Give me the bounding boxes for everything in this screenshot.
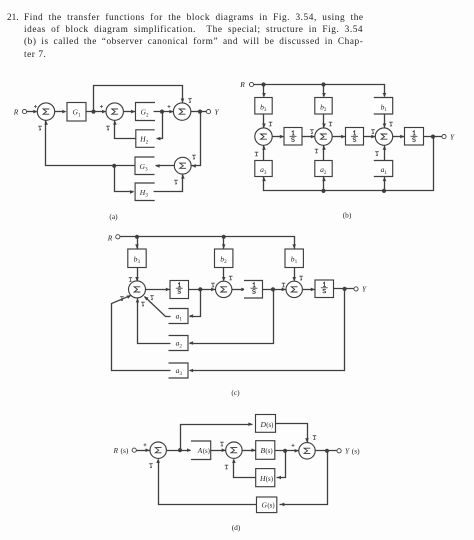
- summing junction S1 (b): [255, 128, 272, 145]
- wire junction 2 down to a2 input (c): [190, 290, 274, 344]
- sign S3 top (d): [313, 436, 317, 440]
- arrowhead into integrator 3 (c): [311, 288, 315, 292]
- block A(s) (d): [191, 441, 211, 460]
- block b1 (c): [285, 249, 303, 268]
- junction node bottom line col2 (b): [321, 189, 325, 193]
- sign S2 left (d): [220, 442, 224, 446]
- arrowhead into S2 (c): [211, 288, 215, 292]
- integrator block 1/s #2 (b): [346, 128, 364, 146]
- arrowhead a3 to S1 (b): [262, 146, 266, 150]
- input terminal R (b): [249, 82, 253, 86]
- output terminal Y(s) (d): [337, 449, 341, 453]
- wire B(s) to summer S3 (d): [275, 450, 299, 452]
- block H(s) (d): [256, 469, 275, 487]
- block a3 (c): [169, 363, 189, 378]
- arrowhead b1 to S3 (c): [292, 277, 296, 281]
- svg-text:(s): (s): [265, 448, 272, 455]
- sign S1 top (c): [129, 278, 133, 282]
- wire S4 to G3 (a): [156, 165, 175, 167]
- output junction node (d): [325, 449, 329, 453]
- arrowhead into H2 (a): [156, 137, 160, 141]
- label 1/s #2 (b): [351, 131, 358, 142]
- summing junction S2 (a): [106, 103, 123, 120]
- integrator block 1/s #1 (b): [284, 128, 302, 146]
- junction node on G3 output line (a): [112, 164, 116, 168]
- integrator block 1/s #1 (c): [170, 281, 189, 299]
- block G2 (a): [136, 103, 156, 121]
- wire b1 to S3 (c): [294, 268, 296, 281]
- wire G3 output back to S1 bottom (a): [46, 121, 136, 166]
- arrowhead into G(s) (d): [280, 503, 284, 507]
- svg-text:(d): (d): [232, 523, 241, 532]
- wire S1 to integrator 1 (c): [146, 289, 170, 291]
- output terminal Y (a): [206, 110, 210, 114]
- svg-text:R: R: [107, 233, 113, 242]
- sign S3 left (c): [282, 283, 286, 287]
- wire R to summer S1 (a): [27, 111, 37, 113]
- junction node after integrator 1 (c): [198, 287, 202, 291]
- integrator block 1/s #3 (c): [315, 280, 334, 298]
- svg-text:R: R: [113, 446, 119, 455]
- arrowhead into D(s) (d): [248, 422, 252, 426]
- label 1/s #2 (c): [251, 283, 258, 294]
- minus sign S2 bottom input (a): [106, 126, 110, 130]
- plus sign S1 left (d): [144, 443, 147, 446]
- wire down into b3 (c): [137, 237, 139, 249]
- junction node top line col2 (c): [222, 235, 226, 239]
- arrowhead into S2 bottom (a): [113, 121, 117, 125]
- svg-text:R: R: [239, 80, 245, 89]
- wire up into a1 (b): [384, 177, 386, 191]
- arrowhead into H3 (a): [130, 190, 134, 194]
- svg-text:Y: Y: [450, 132, 455, 141]
- wire tap to H2 input (a): [157, 112, 163, 139]
- arrowhead into S1 bottom (a): [44, 121, 48, 125]
- arrowhead into b3 (c): [135, 244, 139, 248]
- summing junction S2 (b): [315, 128, 332, 145]
- wire b3 to S1 (b): [263, 115, 265, 128]
- block H3 (a): [135, 183, 155, 201]
- feedforward bypass wire G1-node to S3 top (a): [94, 86, 183, 112]
- wire S2 to G2 (a): [124, 111, 136, 113]
- block a1 (b): [374, 161, 393, 177]
- svg-text:(s): (s): [121, 446, 129, 455]
- wire S3 to integrator 3 (c): [303, 289, 315, 291]
- summing junction S4 (a): [174, 157, 191, 174]
- sign S2 top (b): [329, 122, 333, 126]
- wire integrator 1 to S2 (b): [303, 136, 315, 138]
- wire a1 output diagonal to S1 (c): [145, 297, 171, 317]
- arrowhead into S3 (d): [295, 449, 299, 453]
- sign S4 right input (a): [192, 155, 196, 159]
- wire G2 to summer S3 (a): [154, 111, 174, 113]
- wire junction down to H3 input (a): [115, 166, 134, 192]
- wire G(s) output to S1 bottom (d): [159, 460, 257, 505]
- sign S2 left (b): [310, 130, 314, 134]
- wire H3 output to S4 bottom (a): [154, 175, 183, 192]
- summing junction S2 (c): [216, 281, 232, 297]
- wire up into a2 (b): [323, 177, 325, 191]
- plus sign S1 left input (a): [34, 105, 37, 108]
- problem number: [7, 12, 19, 24]
- wire junction 1 down to a1 input (c): [190, 290, 201, 317]
- arrowhead into integrator 1 (c): [166, 288, 170, 292]
- wire down into b3 (b): [263, 85, 265, 97]
- arrowhead into b1 (b): [383, 93, 387, 97]
- arrowhead into S3 top (d): [305, 438, 309, 442]
- sign S1 top (b): [269, 122, 273, 126]
- junction node after S1 (d): [178, 448, 182, 452]
- plus sign S2 left input (a): [100, 105, 103, 108]
- wire a2 output to S1 bottom (c): [138, 299, 171, 344]
- block a2 (b): [315, 161, 332, 177]
- arrowhead into G1 (a): [62, 110, 66, 114]
- arrowhead into a1 (c): [189, 314, 193, 318]
- summing junction S1 (a): [37, 103, 54, 120]
- wire S1 to A(s) (d): [167, 450, 191, 452]
- sign S2 bottom (b): [315, 149, 319, 153]
- junction node top line col1 (b): [261, 82, 265, 86]
- arrowhead into a3 bottom (b): [262, 177, 266, 181]
- output junction node (c): [343, 287, 347, 291]
- arrowhead into integrator 1 (b): [280, 135, 284, 139]
- wire integrator 2 to S3 (c): [263, 289, 286, 291]
- arrowhead into b1 (c): [292, 244, 296, 248]
- label 1/s #1 (c): [176, 283, 183, 294]
- block H2 (a): [136, 130, 155, 148]
- junction node top line col1 (c): [135, 235, 139, 239]
- wire S2 to integrator 2 (c): [232, 289, 246, 291]
- wire output junction down to a3 input (c): [190, 289, 345, 371]
- wire D(s) output to S3 top (d): [276, 424, 308, 443]
- wire b3 to S1 (c): [137, 268, 139, 281]
- arrowhead into S2 bottom (d): [232, 459, 236, 463]
- top distribution wire from R (b): [254, 85, 385, 97]
- wire S1 to G1 (a): [55, 111, 63, 113]
- arrowhead into b3 (b): [262, 93, 266, 97]
- svg-text:(s): (s): [266, 476, 273, 483]
- svg-text:Y: Y: [345, 447, 350, 456]
- block G(s) (d): [257, 497, 277, 513]
- arrowhead into a1 bottom (b): [383, 177, 387, 181]
- wire junction down to H(s) input (d): [277, 451, 286, 478]
- arrowhead b3 to S1 (b): [262, 124, 266, 128]
- wire integrator 3 to output Y (c): [334, 288, 354, 290]
- wire b2 to S2 (c): [223, 268, 225, 281]
- block B(s) (d): [256, 441, 275, 460]
- arrowhead into S3 (c): [282, 288, 286, 292]
- wire S3 to output Y (a): [191, 111, 207, 113]
- wire R to summer S1 (d): [137, 450, 150, 452]
- wire S3 to output Y(s) (d): [316, 450, 338, 452]
- wire a3 to S1 (b): [263, 146, 265, 161]
- arrowhead b2 to S2 (b): [322, 124, 326, 128]
- arrowhead a1 to S3 (b): [383, 146, 387, 150]
- arrowhead into integrator 3 (b): [400, 135, 404, 139]
- arrowhead into a3 (c): [189, 369, 193, 373]
- arrowhead into a2 (c): [189, 341, 193, 345]
- sign S2 left (c): [211, 283, 215, 287]
- wire down into b2 (c): [223, 237, 225, 249]
- wire S3 to integrator 3 (b): [393, 136, 405, 138]
- wire junction up to D(s) input (d): [181, 425, 253, 451]
- block a2 (c): [169, 336, 189, 351]
- block G1 (a): [67, 103, 86, 122]
- input terminal R (c): [116, 235, 120, 239]
- arrowhead into S3 (b): [371, 135, 375, 139]
- junction node after G1 (a): [91, 110, 95, 114]
- sign S3 bottom (b): [375, 152, 379, 156]
- integrator block 1/s #3 (b): [405, 128, 424, 146]
- input terminal R(s) (d): [132, 448, 136, 452]
- junction node bottom line col3 (b): [382, 189, 386, 193]
- svg-text:(c): (c): [231, 388, 240, 397]
- summing junction S2 (d): [226, 442, 242, 458]
- wire G1 to summer S2 (a): [87, 111, 106, 113]
- arrowhead into S1 (d): [146, 448, 150, 452]
- output terminal Y (b): [442, 135, 446, 139]
- arrowhead into H(s) (d): [277, 476, 281, 480]
- sign S1 bottom (b): [255, 152, 259, 156]
- arrowhead a3 into S1 (c): [127, 294, 132, 299]
- svg-text:(s): (s): [266, 422, 273, 429]
- minus sign S1 bottom input (a): [38, 126, 42, 130]
- summing junction S3 (c): [286, 281, 302, 297]
- summing junction S3 (b): [375, 128, 392, 145]
- wire b2 to S2 (b): [323, 115, 325, 128]
- sign S3 top input (a): [188, 99, 192, 103]
- label 1/s #1 (b): [290, 131, 297, 142]
- arrowhead into a2 bottom (b): [322, 177, 326, 181]
- summing junction S1 (d): [150, 442, 166, 458]
- svg-text:(a): (a): [109, 212, 118, 221]
- arrowhead into b2 (c): [222, 244, 226, 248]
- sign S4 bottom input (a): [174, 180, 178, 184]
- svg-text:Y: Y: [214, 107, 219, 116]
- svg-text:(s): (s): [203, 448, 210, 455]
- wire output junction down to G(s) input (d): [280, 451, 328, 505]
- block D(s) (d): [256, 415, 276, 433]
- svg-text:R: R: [13, 107, 19, 116]
- sign S3 left (b): [371, 130, 375, 134]
- sign a1 input at S1 (c): [150, 296, 154, 300]
- junction node after G2 (a): [160, 110, 164, 114]
- integrator block 1/s #2 (c): [244, 281, 263, 299]
- wire output node down to summer S4 (a): [192, 112, 201, 166]
- sign a3 input at S1 (c): [120, 297, 124, 301]
- sign S3 top (b): [389, 122, 393, 126]
- arrowhead into A(s) (d): [187, 448, 191, 452]
- junction node top line col2 (b): [321, 82, 325, 86]
- plus sign S3 left (d): [292, 444, 295, 447]
- arrowhead into b2 (b): [322, 93, 326, 97]
- svg-text:(s): (s): [267, 503, 274, 510]
- output junction node (b): [431, 135, 435, 139]
- arrowhead into integrator 2 (b): [341, 135, 345, 139]
- wire S1 to integrator 1 (b): [273, 136, 284, 138]
- arrowhead b3 to S1 (c): [135, 277, 139, 281]
- arrowhead into G3 (a): [155, 164, 159, 168]
- block b1 (b): [374, 98, 393, 115]
- sign S2 bottom (d): [225, 465, 229, 469]
- arrowhead into S1 (a): [33, 110, 37, 114]
- sign S3 top (c): [299, 276, 303, 280]
- svg-text:Y: Y: [362, 285, 367, 294]
- block G3 (a): [135, 157, 155, 175]
- summing junction S1 (c): [129, 281, 146, 298]
- wire integrator 2 to S3 (b): [364, 136, 376, 138]
- label 1/s #3 (c): [321, 282, 328, 293]
- plus sign S3 left input (a): [168, 105, 171, 108]
- arrowhead into B(s) (d): [252, 448, 256, 452]
- svg-text:(b): (b): [343, 211, 352, 220]
- label 1/s #3 (b): [411, 131, 418, 142]
- wire a3 output to S1 lower-left (c): [112, 296, 171, 371]
- block a1 (c): [169, 309, 189, 324]
- wire b1 to S3 (b): [384, 115, 386, 128]
- wire H(s) output to S2 bottom (d): [234, 460, 256, 478]
- wire S2 to integrator 2 (b): [333, 136, 346, 138]
- arrowhead into S2 (d): [222, 448, 226, 452]
- arrowhead into S3 (a): [169, 110, 173, 114]
- arrowhead b1 to S3 (b): [383, 124, 387, 128]
- block b3 (b): [255, 98, 272, 115]
- block b2 (b): [315, 98, 332, 115]
- output junction node (a): [198, 110, 202, 114]
- arrowhead into S2 (b): [311, 135, 315, 139]
- wire a2 to S2 (b): [323, 146, 325, 161]
- wire H2 output to S2 bottom (a): [115, 121, 136, 139]
- problem statement text: [24, 12, 364, 62]
- svg-text:(s): (s): [352, 447, 360, 456]
- wire integrator 3 to output Y (b): [424, 136, 442, 138]
- sign a2 input at S1 (c): [141, 302, 145, 306]
- wire down into b2 (b): [323, 85, 325, 97]
- arrowhead into S3 top (a): [181, 99, 185, 103]
- block b2 (c): [215, 249, 233, 268]
- output terminal Y (c): [354, 287, 358, 291]
- arrowhead a2 into S1 bottom (c): [136, 298, 140, 302]
- arrowhead into S4 right (a): [192, 164, 196, 168]
- summing junction S3 (a): [173, 103, 190, 120]
- wire integrator 1 to S2 (c): [189, 289, 216, 291]
- block a3 (b): [255, 161, 272, 177]
- arrowhead into S1 bottom (d): [156, 459, 160, 463]
- junction node after B(s) (d): [283, 449, 287, 453]
- summing junction S3 (d): [299, 443, 315, 459]
- arrowhead b2 to S2 (c): [222, 277, 226, 281]
- sign S2 top (c): [229, 276, 233, 280]
- sign S1 bottom (d): [149, 464, 153, 468]
- arrowhead a1 into S1 (c): [143, 295, 149, 301]
- arrowhead into S4 bottom (a): [181, 174, 185, 178]
- wire A(s) to summer S2 (d): [211, 450, 226, 452]
- junction node after integrator 2 (c): [271, 287, 275, 291]
- arrowhead a2 to S2 (b): [322, 146, 326, 150]
- wire a1 to S3 (b): [384, 146, 386, 161]
- arrowhead into S2 (a): [102, 110, 106, 114]
- block b3 (c): [128, 249, 146, 268]
- top distribution wire from R (c): [120, 237, 295, 249]
- wire S2 to B(s) (d): [242, 450, 256, 452]
- arrowhead into G2 (a): [131, 110, 135, 114]
- arrowhead into integrator 2 (c): [241, 288, 245, 292]
- bottom feedback distribution wire (b): [264, 137, 434, 191]
